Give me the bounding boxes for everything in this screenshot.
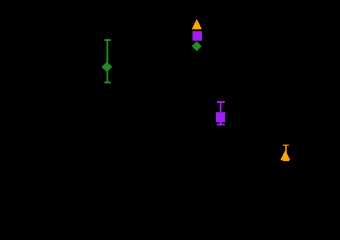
series2 purple errorbar bottom cap [217, 124, 225, 126]
series1 green errorbar line [106, 40, 108, 83]
series3 orange errorbar top cap [283, 144, 289, 146]
series2 purple errorbar top cap [217, 101, 225, 103]
series1 green errorbar bottom cap [104, 81, 111, 83]
series2 purple errorbar line [220, 102, 222, 125]
cluster orange triangle marker [192, 20, 201, 29]
series3 orange triangle marker [281, 151, 290, 160]
series3 orange errorbar line [285, 145, 287, 160]
cluster purple square marker [193, 31, 203, 41]
series1 green errorbar top cap [104, 39, 111, 41]
series3 orange errorbar bottom cap [283, 159, 289, 161]
series2 purple square marker [216, 112, 225, 122]
cluster green diamond marker [193, 42, 201, 50]
series1 green diamond marker [102, 62, 112, 71]
